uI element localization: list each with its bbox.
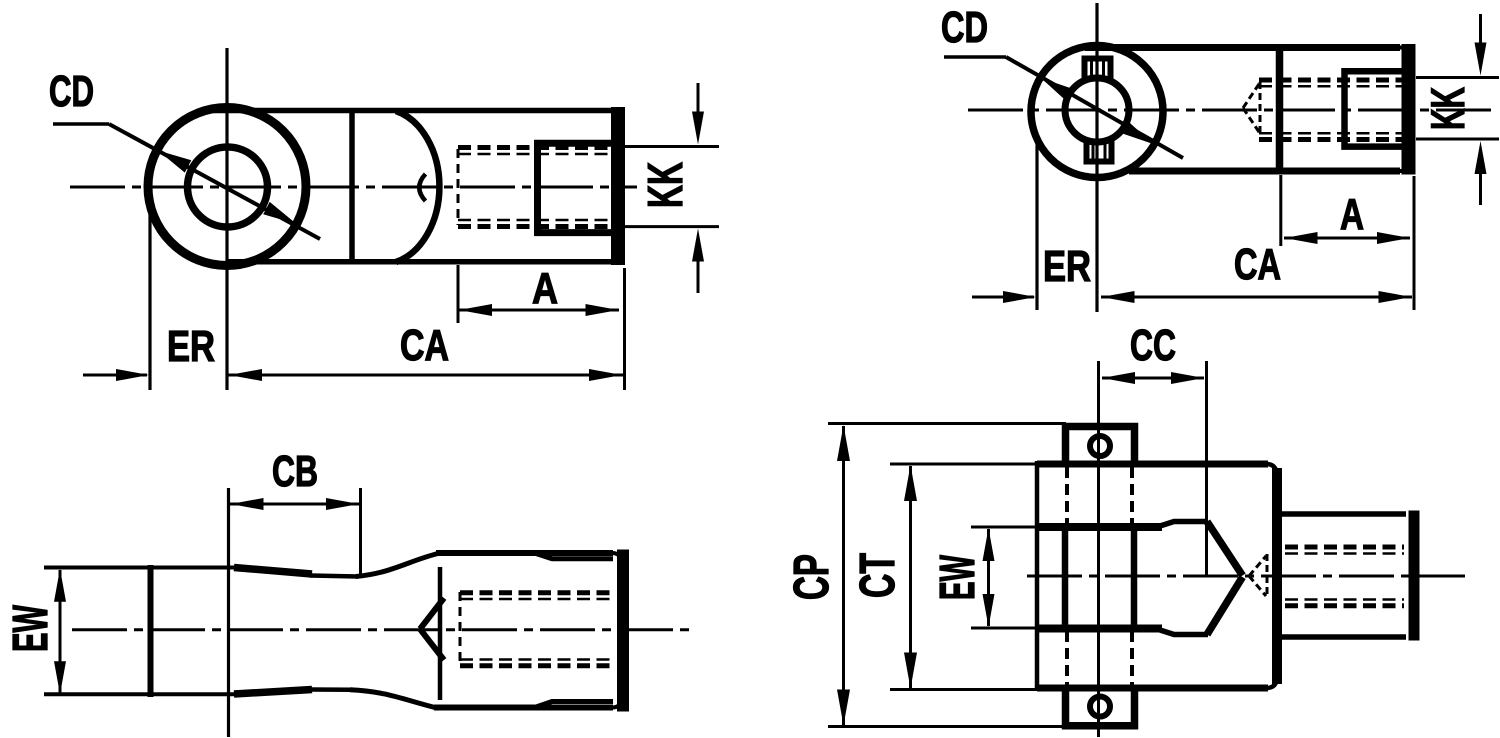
view3 label CB bbox=[272, 447, 318, 496]
view2 label KK bbox=[1421, 87, 1474, 130]
view3 drill cone bbox=[420, 598, 444, 660]
view1 rod-eye body outline bbox=[210, 107, 620, 265]
view4 thread end hidden cone bbox=[1249, 554, 1267, 598]
view1 ER extension line bbox=[148, 208, 151, 390]
view1 A dimension bbox=[458, 265, 619, 323]
view1 spherical end arc bbox=[396, 111, 439, 262]
view1 label CD bbox=[49, 67, 94, 116]
view3 EW dimension bbox=[54, 569, 66, 694]
view1 KK arrows bbox=[692, 83, 704, 293]
view4 pin vertical centerline bbox=[1097, 361, 1100, 737]
view2 CA dimension line bbox=[1101, 176, 1414, 310]
view2 ER outside arrow bbox=[972, 291, 1036, 303]
svg-text:EW: EW bbox=[4, 605, 58, 652]
svg-text:KK: KK bbox=[639, 162, 693, 208]
view1 boss junction line bbox=[349, 110, 355, 262]
view2 ER extension line bbox=[1035, 135, 1038, 310]
view1 horizontal centerline bbox=[70, 186, 637, 189]
view4 pin top cap bbox=[1066, 427, 1135, 464]
view4 label CC bbox=[1130, 321, 1176, 370]
view3 label EW bbox=[4, 605, 58, 652]
svg-text:CD: CD bbox=[49, 67, 94, 116]
svg-text:A: A bbox=[532, 264, 558, 313]
view2 label A bbox=[1340, 190, 1364, 239]
svg-text:CC: CC bbox=[1130, 321, 1176, 370]
view3 thread end line bbox=[438, 567, 443, 700]
view3 vertical centerline bbox=[227, 488, 230, 737]
view1 vertical centerline bbox=[225, 48, 228, 390]
view2 A dimension bbox=[1281, 175, 1410, 246]
view3 CB dimension bbox=[230, 488, 361, 577]
view3 tongue outline bbox=[44, 565, 312, 697]
svg-text:CB: CB bbox=[272, 447, 318, 496]
view4 label CP bbox=[785, 554, 839, 600]
view1 KK extension lines bbox=[622, 147, 719, 227]
svg-text:KK: KK bbox=[1421, 87, 1474, 130]
view1 label KK bbox=[639, 162, 693, 208]
view4 slot end cone bbox=[1207, 522, 1243, 635]
svg-text:ER: ER bbox=[1043, 242, 1091, 291]
view1 CD leader line bbox=[53, 124, 320, 239]
svg-text:A: A bbox=[1340, 190, 1364, 239]
view2 CD leader arrows bbox=[1041, 78, 1153, 144]
svg-text:CP: CP bbox=[785, 554, 839, 600]
view4 clevis body outline bbox=[1037, 461, 1277, 691]
view1 CD leader arrows bbox=[158, 151, 297, 225]
view2 thread hidden lines (KK) bbox=[1259, 80, 1402, 140]
view1 ER outside arrow bbox=[83, 369, 149, 381]
view3 wide body outline bbox=[434, 550, 623, 712]
view2 eye outer circle bbox=[1031, 46, 1163, 178]
view2 KK extension lines bbox=[1416, 78, 1499, 140]
view4 pin bottom cotter hole bbox=[1090, 697, 1110, 717]
view4 boss thread hidden lines bbox=[1285, 547, 1404, 606]
view2 label CA bbox=[1234, 240, 1281, 289]
view4 CP dimension bbox=[828, 424, 1066, 727]
view2 horizontal centerline bbox=[968, 109, 1492, 112]
view2 KK arrows bbox=[1475, 14, 1487, 205]
view1 drill point small arc bbox=[419, 174, 425, 201]
svg-text:EW: EW bbox=[931, 555, 985, 600]
view2 vertical centerline bbox=[1095, 3, 1098, 312]
view2 boss junction line bbox=[1276, 47, 1284, 170]
view2 label ER bbox=[1043, 242, 1091, 291]
view1 eye inner circle (pin hole CD) bbox=[188, 147, 268, 227]
svg-text:ER: ER bbox=[167, 322, 215, 371]
view4 label CT bbox=[851, 553, 905, 598]
view1 label A bbox=[532, 264, 558, 313]
svg-text:CD: CD bbox=[941, 3, 988, 52]
view2 drill point hidden cone bbox=[1243, 82, 1260, 136]
view3 transition curves bbox=[310, 554, 438, 709]
view4 slot top line bbox=[1037, 522, 1208, 528]
view4 label EW bbox=[931, 555, 985, 600]
view1 CA dimension line bbox=[228, 268, 625, 390]
view4 slot bottom line bbox=[1037, 629, 1208, 635]
view1 eye outer circle bbox=[148, 108, 306, 266]
view4 EW dimension bbox=[971, 527, 1036, 628]
view1 label ER bbox=[167, 322, 215, 371]
view3 thread hidden lines bbox=[460, 592, 614, 667]
view4 threaded boss outline bbox=[1280, 511, 1414, 641]
view4 pin hidden edges in prongs bbox=[1067, 467, 1132, 685]
view1 counterbore box bbox=[538, 143, 613, 232]
view1 label CA bbox=[400, 321, 449, 370]
view3 chamfer lines bbox=[536, 554, 613, 708]
view2 CD leader line bbox=[944, 57, 1183, 158]
view4 horizontal centerline bbox=[1027, 575, 1465, 578]
svg-text:CA: CA bbox=[1234, 240, 1281, 289]
view4 pin visible edges in slot bbox=[1065, 524, 1134, 631]
view1 thread hidden lines (KK) bbox=[458, 148, 612, 227]
view4 CC dimension bbox=[1102, 361, 1207, 576]
svg-text:CA: CA bbox=[400, 321, 449, 370]
view4 CT dimension bbox=[890, 464, 1036, 690]
view2 body outline bbox=[1085, 44, 1410, 175]
view4 pin bottom cap bbox=[1066, 689, 1135, 726]
view2 pin bottom tab bbox=[1087, 139, 1112, 162]
view3 horizontal centerline bbox=[72, 628, 690, 631]
view2 label CD bbox=[941, 3, 988, 52]
view4 pin top cotter hole bbox=[1090, 436, 1110, 456]
view2 counterbore box bbox=[1345, 71, 1403, 146]
svg-text:CT: CT bbox=[851, 553, 905, 598]
view2 eye inner circle (pin hole CD) bbox=[1065, 78, 1129, 142]
view2 pin top tab bbox=[1085, 59, 1111, 82]
